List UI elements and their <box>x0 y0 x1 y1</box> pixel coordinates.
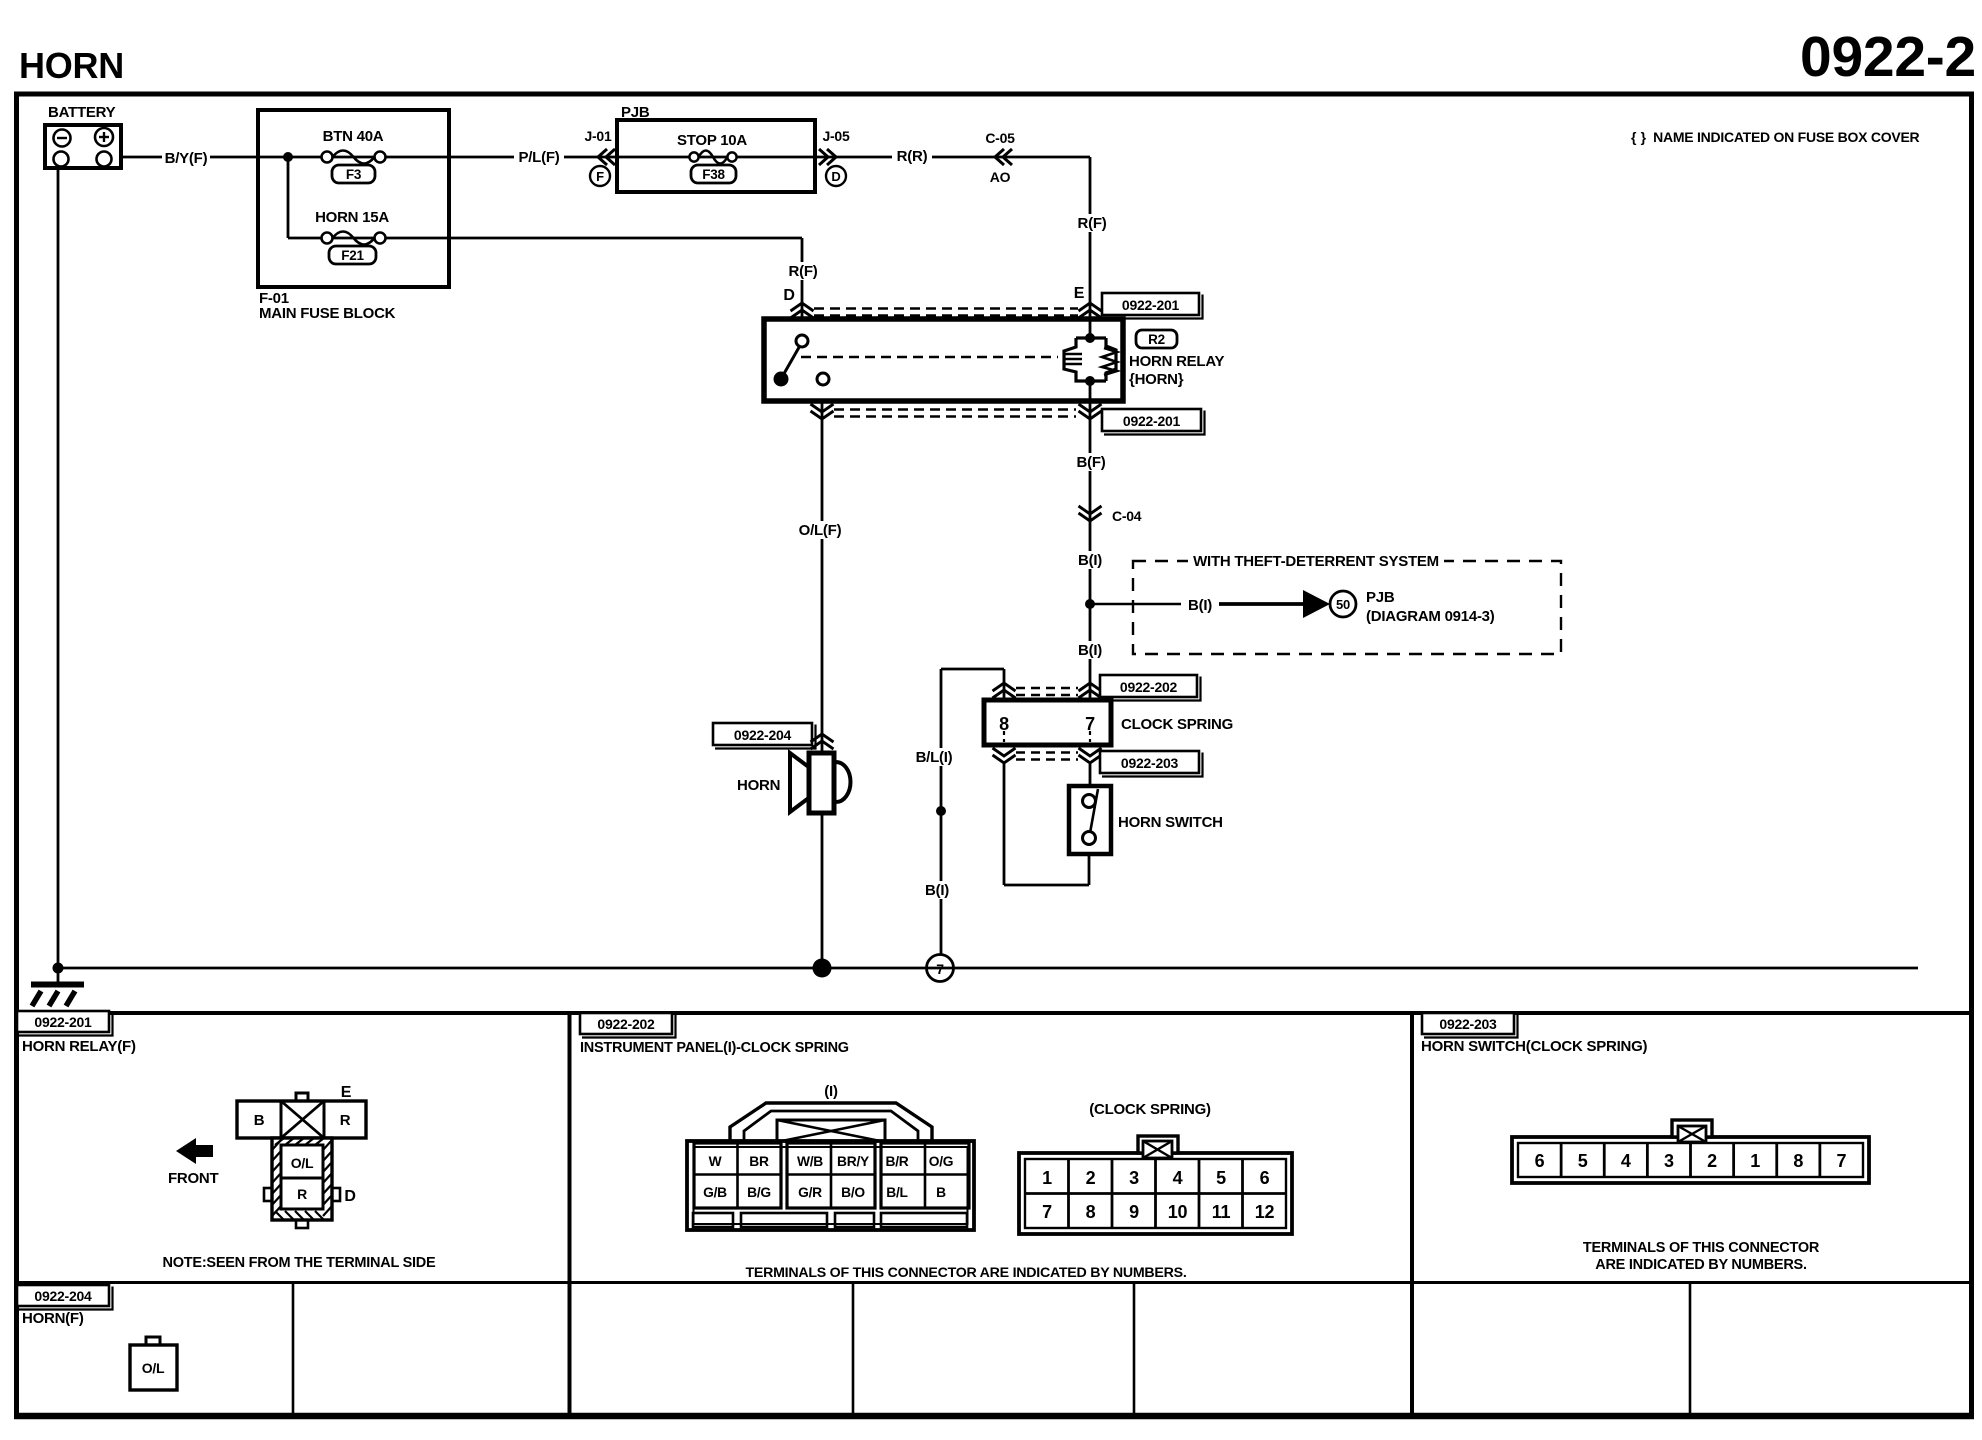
svg-text:MAIN FUSE BLOCK: MAIN FUSE BLOCK <box>259 305 396 322</box>
svg-text:B: B <box>254 1112 265 1129</box>
row2 divider b <box>852 1283 855 1417</box>
theft box title <box>1188 548 1444 568</box>
svg-text:FRONT: FRONT <box>168 1170 218 1187</box>
svg-text:B/O: B/O <box>841 1185 865 1200</box>
wire label P/L(F) <box>514 148 564 166</box>
horn connector O/L <box>146 1337 160 1346</box>
row2 divider c <box>1133 1283 1136 1417</box>
svg-text:AO: AO <box>990 169 1011 185</box>
svg-text:0922-204: 0922-204 <box>734 727 792 743</box>
junction node splice <box>936 806 946 816</box>
ref tag 0922-201 lower <box>1102 409 1201 431</box>
junction node horn ground <box>813 959 832 978</box>
svg-text:0922-201: 0922-201 <box>34 1014 92 1030</box>
wire label B/L(I) <box>909 748 959 766</box>
svg-text:R(F): R(F) <box>789 263 818 280</box>
ref tag panel 0922-202 <box>580 1013 672 1034</box>
dashed pair below relay <box>834 408 1076 411</box>
svg-text:ARE INDICATED BY NUMBERS.: ARE INDICATED BY NUMBERS. <box>1595 1257 1807 1273</box>
svg-text:F: F <box>596 169 604 184</box>
relay coil <box>1089 319 1092 341</box>
connector I index slots <box>693 1213 733 1227</box>
svg-text:{HORN}: {HORN} <box>1129 371 1184 388</box>
horn switch connector grid <box>1560 1143 1563 1177</box>
svg-text:0922-2: 0922-2 <box>1800 25 1976 89</box>
relay name tag R2 <box>1136 330 1177 348</box>
circled 50 <box>1330 591 1356 617</box>
ref tag panel 0922-203 <box>1422 1013 1514 1034</box>
svg-text:O/G: O/G <box>929 1154 954 1169</box>
wire label B/Y(F) <box>162 149 210 167</box>
svg-text:W/B: W/B <box>797 1154 823 1169</box>
svg-text:5: 5 <box>1578 1151 1588 1171</box>
ground <box>57 968 60 984</box>
svg-text:11: 11 <box>1212 1202 1231 1222</box>
svg-text:4: 4 <box>1621 1151 1631 1171</box>
junction node theft branch <box>1085 599 1095 609</box>
horn switch <box>1069 786 1111 854</box>
svg-text:0922-202: 0922-202 <box>597 1016 655 1032</box>
svg-text:HORN(F): HORN(F) <box>22 1310 84 1327</box>
circled terminal 7 <box>927 955 954 982</box>
wire clock spring loop top <box>1003 669 1006 700</box>
wire horn switch loop <box>1004 884 1089 887</box>
svg-text:6: 6 <box>1535 1151 1545 1171</box>
svg-text:D: D <box>783 287 794 304</box>
svg-text:8: 8 <box>999 714 1009 734</box>
connector I hood <box>730 1103 932 1142</box>
svg-text:2: 2 <box>1707 1151 1717 1171</box>
wire relay to clock spring B <box>1089 401 1092 700</box>
wire theft branch <box>1090 603 1217 606</box>
svg-text:2: 2 <box>1086 1168 1096 1188</box>
relay switch <box>796 335 808 347</box>
theft-deterrent dashed box <box>1133 561 1561 654</box>
ground bus wire <box>58 967 1918 970</box>
svg-text:BTN 40A: BTN 40A <box>323 128 384 145</box>
svg-text:HORN SWITCH: HORN SWITCH <box>1118 814 1223 831</box>
ref tag 0922-202 <box>1100 675 1197 697</box>
svg-text:D: D <box>831 169 840 184</box>
svg-text:(CLOCK SPRING): (CLOCK SPRING) <box>1089 1101 1211 1118</box>
svg-text:E: E <box>341 1084 352 1101</box>
svg-text:J-05: J-05 <box>822 128 849 144</box>
ref tag 0922-204 <box>713 723 812 745</box>
relay connector top bar <box>237 1101 366 1138</box>
wire label R(R) <box>892 147 932 165</box>
wire label R(F) left <box>783 262 823 280</box>
row2 divider d <box>1689 1283 1692 1417</box>
svg-text:HORN 15A: HORN 15A <box>315 209 389 226</box>
svg-text:F21: F21 <box>341 248 364 263</box>
main diagram bottom separator <box>14 1011 1972 1015</box>
relay dashed actuation line <box>801 356 1058 359</box>
wire label R(F) right <box>1072 214 1112 232</box>
svg-text:INSTRUMENT PANEL(I)-CLOCK SPRI: INSTRUMENT PANEL(I)-CLOCK SPRING <box>580 1040 849 1056</box>
horn relay R2 box <box>764 319 1123 401</box>
connector I cells <box>694 1143 781 1208</box>
svg-text:4: 4 <box>1173 1168 1183 1188</box>
svg-text:BATTERY: BATTERY <box>48 104 116 121</box>
svg-text:0922-203: 0922-203 <box>1121 755 1179 771</box>
ref tag panel 0922-201 <box>17 1011 109 1032</box>
svg-text:R2: R2 <box>1148 332 1165 347</box>
svg-text:R: R <box>297 1186 307 1202</box>
svg-text:8: 8 <box>1086 1202 1096 1222</box>
svg-text:B/L(I): B/L(I) <box>916 749 953 766</box>
wire horn to ground bus <box>821 813 824 968</box>
svg-text:STOP 10A: STOP 10A <box>677 132 747 149</box>
svg-text:HORN: HORN <box>19 45 124 86</box>
wire label B(F) <box>1072 453 1110 471</box>
svg-text:B/L: B/L <box>886 1185 907 1200</box>
fuse STOP 10A <box>689 152 698 161</box>
clock spring exit chevrons <box>993 748 1016 763</box>
wire horn fuse to relay D vertical <box>801 238 804 319</box>
svg-text:O/L(F): O/L(F) <box>799 522 842 539</box>
horn entry chevron <box>811 734 834 749</box>
svg-text:O/L: O/L <box>142 1360 165 1376</box>
svg-text:B: B <box>936 1185 946 1200</box>
row2 divider a <box>292 1283 295 1417</box>
wire clock spring 7 to switch <box>1089 764 1092 786</box>
panel divider right (row1+row2) <box>1410 1013 1414 1416</box>
fuse HORN 15A <box>322 233 333 244</box>
svg-text:0922-202: 0922-202 <box>1120 679 1178 695</box>
svg-text:HORN RELAY: HORN RELAY <box>1129 353 1225 370</box>
svg-text:0922-201: 0922-201 <box>1123 413 1181 429</box>
connector C-04 <box>1079 506 1102 521</box>
PJB box <box>617 120 815 192</box>
bottom row separator <box>14 1281 1972 1284</box>
svg-text:D: D <box>344 1188 355 1205</box>
svg-text:BR: BR <box>749 1154 769 1169</box>
horn <box>790 753 810 812</box>
svg-text:B/G: B/G <box>747 1185 771 1200</box>
svg-text:W: W <box>709 1154 723 1169</box>
svg-text:0922-203: 0922-203 <box>1439 1016 1497 1032</box>
svg-text:O/L: O/L <box>291 1155 314 1171</box>
svg-text:R: R <box>340 1112 351 1129</box>
ref tag panel 0922-204 <box>17 1285 109 1306</box>
wire clock spring 8 down <box>1003 764 1006 885</box>
front arrow <box>176 1138 213 1164</box>
main fuse block F-01 <box>258 110 449 287</box>
svg-text:3: 3 <box>1129 1168 1139 1188</box>
wire B/L(I) run <box>940 669 943 968</box>
svg-text:F3: F3 <box>346 167 362 182</box>
horn switch connector <box>1512 1137 1869 1183</box>
fuse BTN 40A <box>322 152 333 163</box>
svg-text:HORN: HORN <box>737 777 780 794</box>
wire horn fuse branch vertical <box>287 157 290 238</box>
svg-text:1: 1 <box>1042 1168 1052 1188</box>
clock spring box <box>984 700 1111 745</box>
svg-text:7: 7 <box>1042 1202 1052 1222</box>
panel divider left (row1+row2) <box>568 1013 572 1416</box>
wire label B(I) branch <box>1181 596 1219 614</box>
svg-text:8: 8 <box>1793 1151 1803 1171</box>
fuse tag F21 <box>329 246 376 264</box>
ref tag 0922-203 <box>1100 751 1199 773</box>
svg-text:G/B: G/B <box>703 1185 727 1200</box>
junction node battery feed <box>283 152 293 162</box>
svg-text:C-04: C-04 <box>1112 508 1142 524</box>
clock spring connector <box>1019 1153 1292 1234</box>
svg-text:R(R): R(R) <box>897 148 928 165</box>
svg-text:50: 50 <box>1336 597 1350 612</box>
arrow to PJB <box>1303 590 1330 618</box>
wire horn fuse row <box>288 237 802 240</box>
svg-text:0922-204: 0922-204 <box>34 1288 92 1304</box>
svg-text:TERMINALS OF THIS CONNECTOR: TERMINALS OF THIS CONNECTOR <box>1583 1240 1820 1256</box>
svg-text:B(I): B(I) <box>1078 552 1102 569</box>
dashed pair above clock spring <box>1016 687 1078 690</box>
svg-text:C-05: C-05 <box>985 130 1015 146</box>
svg-text:10: 10 <box>1168 1202 1188 1222</box>
svg-text:B(I): B(I) <box>925 882 949 899</box>
dashed pair below clock spring <box>1016 751 1078 754</box>
relay exit chevron left <box>811 404 834 419</box>
svg-text:B/Y(F): B/Y(F) <box>165 150 208 167</box>
svg-text:B/R: B/R <box>885 1154 908 1169</box>
svg-text:12: 12 <box>1255 1202 1275 1222</box>
wire label B(I) ground <box>919 881 955 899</box>
relay exit chevron right <box>1079 404 1102 419</box>
svg-text:WITH THEFT-DETERRENT SYSTEM: WITH THEFT-DETERRENT SYSTEM <box>1193 553 1439 570</box>
svg-text:5: 5 <box>1216 1168 1226 1188</box>
wire label B(I) upper <box>1072 551 1108 569</box>
svg-text:7: 7 <box>1837 1151 1847 1171</box>
wire label B(I) lower <box>1072 641 1108 659</box>
svg-text:HORN SWITCH(CLOCK SPRING): HORN SWITCH(CLOCK SPRING) <box>1421 1038 1647 1055</box>
wire battery to PJB to E drop (B+ feed) <box>121 156 1090 159</box>
svg-text:NOTE:SEEN FROM THE TERMINAL SI: NOTE:SEEN FROM THE TERMINAL SIDE <box>163 1255 436 1271</box>
connector I body <box>687 1141 974 1230</box>
dashed pair above relay <box>814 307 1078 310</box>
svg-text:9: 9 <box>1129 1202 1139 1222</box>
fuse tag F3 <box>332 165 375 183</box>
svg-text:G/R: G/R <box>798 1185 822 1200</box>
svg-text:J-01: J-01 <box>584 128 611 144</box>
wire relay to horn O/L(F) <box>821 401 824 754</box>
svg-text:E: E <box>1074 285 1085 302</box>
wire battery ground drop <box>57 167 60 968</box>
svg-text:1: 1 <box>1750 1151 1760 1171</box>
svg-text:CLOCK SPRING: CLOCK SPRING <box>1121 716 1233 733</box>
clock spring entry chevrons <box>993 683 1016 698</box>
svg-text:F38: F38 <box>702 167 725 182</box>
relay connector body <box>272 1138 332 1220</box>
svg-text:3: 3 <box>1664 1151 1674 1171</box>
svg-text:B(I): B(I) <box>1188 597 1212 614</box>
svg-text:TERMINALS OF THIS CONNECTOR AR: TERMINALS OF THIS CONNECTOR ARE INDICATE… <box>745 1265 1186 1281</box>
ref tag 0922-201 upper <box>1102 293 1199 315</box>
svg-text:R(F): R(F) <box>1078 215 1107 232</box>
svg-text:6: 6 <box>1260 1168 1270 1188</box>
svg-text:B(I): B(I) <box>1078 642 1102 659</box>
battery <box>45 125 121 168</box>
svg-text:PJB: PJB <box>1366 589 1395 606</box>
fuse tag F38 <box>691 165 736 183</box>
svg-text:BR/Y: BR/Y <box>837 1154 869 1169</box>
svg-text:{ } NAME INDICATED ON FUSE BO: { } NAME INDICATED ON FUSE BOX COVER <box>1631 129 1920 145</box>
svg-text:HORN RELAY(F): HORN RELAY(F) <box>22 1038 136 1055</box>
svg-text:0922-201: 0922-201 <box>1122 297 1180 313</box>
svg-text:P/L(F): P/L(F) <box>519 149 560 166</box>
svg-text:(I): (I) <box>824 1083 838 1100</box>
wire label O/L(F) <box>794 521 846 539</box>
svg-text:(DIAGRAM 0914-3): (DIAGRAM 0914-3) <box>1366 608 1495 625</box>
wire vertical E feed R(F) <box>1089 157 1092 319</box>
clock spring connector grid <box>1025 1192 1286 1195</box>
svg-text:B(F): B(F) <box>1077 454 1106 471</box>
junction node battery ground <box>53 963 64 974</box>
svg-text:7: 7 <box>1085 714 1095 734</box>
